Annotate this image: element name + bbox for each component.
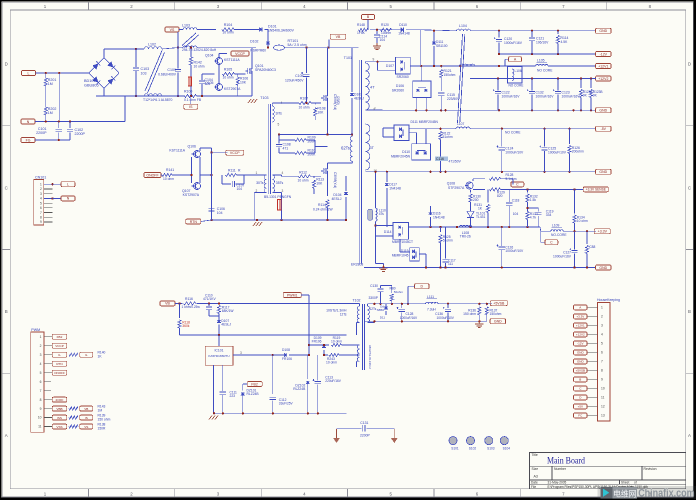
svg-text:1M: 1M — [48, 82, 53, 86]
wire — [327, 48, 329, 135]
ground — [209, 416, 218, 420]
port +3.3V SENSE — [583, 187, 608, 192]
junction — [376, 61, 378, 63]
resistor R110 — [295, 149, 316, 157]
rectifier D111 — [394, 120, 438, 141]
wire — [238, 48, 252, 96]
capacitor C132 — [527, 79, 554, 111]
svg-text:33uF/25V: 33uF/25V — [279, 402, 294, 406]
wire — [214, 355, 273, 413]
port 2OFF — [52, 397, 67, 402]
capacitor C121 — [529, 31, 549, 54]
winding T1 14*6.1 — [143, 94, 173, 102]
transistor Q104 — [205, 54, 240, 65]
svg-text:VSS: VSS — [56, 425, 62, 429]
resistor R114 — [313, 175, 333, 220]
label 10STs — [326, 309, 347, 317]
svg-text:1: 1 — [40, 335, 42, 339]
svg-text:GND: GND — [577, 360, 585, 364]
svg-text:9: 9 — [601, 378, 603, 382]
svg-text:VCCP: VCCP — [235, 52, 245, 56]
svg-text:3: 3 — [240, 351, 242, 355]
svg-text:+5VSB: +5VSB — [576, 369, 585, 373]
wire VB rail — [175, 302, 357, 304]
resistor R202 — [44, 107, 56, 115]
transformer T101 core — [344, 56, 364, 267]
inductor L104 — [457, 24, 471, 31]
capacitor C118 — [506, 189, 519, 227]
wire main HV bus — [285, 47, 359, 49]
capacitor C110 — [203, 294, 219, 317]
junction — [45, 120, 72, 122]
svg-text:L104: L104 — [459, 24, 467, 28]
svg-text:10K: 10K — [316, 182, 323, 186]
svg-text:1000uF/10V: 1000uF/10V — [548, 151, 567, 155]
svg-text:1000uF/16V: 1000uF/16V — [536, 95, 555, 99]
svg-text:294-T2-12024-820 8uH: 294-T2-12024-820 8uH — [182, 48, 217, 52]
port +5VSB pin 8 — [574, 368, 588, 373]
junction — [420, 65, 500, 67]
svg-text:35Ts: 35Ts — [276, 181, 284, 185]
IC IC101 — [205, 335, 242, 365]
svg-text:12: 12 — [601, 405, 605, 409]
port GND — [596, 169, 612, 174]
capacitor C128 — [397, 304, 418, 322]
mosfet Q101 — [246, 64, 276, 75]
svg-text:VS: VS — [84, 425, 88, 429]
port VSS — [52, 423, 106, 431]
svg-text:103: 103 — [141, 72, 147, 76]
svg-text:10 ohm: 10 ohm — [298, 179, 309, 183]
wire — [237, 174, 249, 176]
diode D104 — [332, 176, 348, 220]
svg-text:5: 5 — [40, 371, 42, 375]
svg-text:L102: L102 — [148, 43, 156, 47]
svg-text:S104: S104 — [503, 446, 511, 450]
transformer T103 core — [260, 96, 270, 194]
label HB-EPS — [368, 345, 372, 369]
svg-text:A3: A3 — [534, 474, 538, 478]
svg-text:R100: R100 — [184, 90, 192, 94]
svg-text:R141: R141 — [166, 168, 174, 172]
svg-text:-5V: -5V — [601, 127, 607, 131]
svg-text:IL: IL — [58, 353, 61, 357]
svg-text:D110: D110 — [402, 150, 410, 154]
svg-text:C88: C88 — [589, 245, 595, 249]
svg-text:R107: R107 — [300, 97, 308, 101]
svg-text:Q105: Q105 — [205, 81, 214, 85]
junction — [526, 207, 528, 209]
connector CN101 — [34, 175, 46, 225]
svg-text:S103: S103 — [487, 446, 495, 450]
svg-text:C118: C118 — [512, 199, 520, 203]
resistor R120 — [381, 23, 392, 35]
svg-text:Chinafix.com: Chinafix.com — [638, 487, 695, 499]
port +12V2 — [596, 76, 612, 81]
wire +5VSB rail — [374, 303, 492, 305]
svg-text:5: 5 — [40, 201, 42, 205]
svg-text:1M: 1M — [98, 408, 103, 412]
svg-text:4: 4 — [601, 333, 603, 337]
resistor R112 — [298, 170, 311, 182]
resistor R105 — [223, 68, 235, 80]
svg-text:3300P: 3300P — [368, 296, 378, 300]
wire — [161, 174, 192, 176]
svg-text:KA5H0165RTU: KA5H0165RTU — [208, 354, 229, 358]
wire FG — [35, 139, 70, 141]
port VCCP — [226, 150, 244, 155]
svg-text:223: 223 — [230, 394, 236, 398]
transformer core — [182, 33, 199, 48]
resistor R132 — [526, 189, 538, 208]
port C pin 10 — [574, 386, 588, 391]
resistor R121 — [440, 66, 456, 91]
svg-text:11: 11 — [38, 425, 42, 429]
junction — [45, 72, 61, 74]
svg-text:104: 104 — [237, 187, 243, 191]
svg-text:200ohm: 200ohm — [572, 150, 584, 154]
inductor L103 — [182, 23, 197, 29]
svg-text:C109: C109 — [167, 68, 176, 72]
wire — [192, 154, 212, 186]
capacitor C101 — [36, 122, 62, 141]
svg-text:9: 9 — [373, 58, 375, 62]
svg-text:Number: Number — [554, 467, 567, 471]
svg-text:1.5k: 1.5k — [530, 198, 537, 202]
svg-text:1000uF/10V: 1000uF/10V — [505, 151, 524, 155]
winding 35Ts — [272, 171, 283, 193]
svg-text:D102: D102 — [250, 40, 258, 44]
resistor R137 — [485, 304, 501, 322]
capacitor C109 — [158, 48, 181, 96]
svg-text:1000uF/10V: 1000uF/10V — [437, 316, 455, 320]
junction — [178, 302, 220, 304]
svg-text:10: 10 — [601, 387, 605, 391]
diode D110 — [370, 23, 414, 36]
svg-text:(20/D): (20/D) — [336, 96, 340, 105]
svg-text:VB: VB — [165, 302, 170, 306]
wire — [367, 304, 374, 323]
port +3.3V pin 2 — [574, 314, 588, 319]
svg-text:GND: GND — [599, 266, 607, 270]
wire L input — [36, 72, 90, 74]
wire — [381, 285, 392, 287]
wire fb rail — [180, 334, 347, 336]
svg-text:3: 3 — [601, 324, 603, 328]
svg-text:334: 334 — [546, 213, 552, 217]
svg-text:2: 2 — [601, 315, 603, 319]
svg-text:A: A — [5, 433, 8, 438]
port C — [541, 231, 558, 245]
port C — [511, 179, 524, 187]
svg-text:D: D — [5, 62, 8, 67]
svg-text:0.68U/400V: 0.68U/400V — [158, 73, 177, 77]
wire — [248, 175, 266, 220]
svg-text:R114: R114 — [318, 203, 326, 207]
svg-text:4: 4 — [40, 197, 42, 201]
ground — [333, 429, 340, 443]
wire — [328, 162, 353, 168]
svg-text:C116: C116 — [436, 157, 444, 161]
winding 3ITs — [272, 101, 282, 127]
wire — [375, 172, 383, 265]
resistor R104 — [197, 23, 234, 35]
port VS — [165, 27, 179, 32]
wire — [45, 73, 47, 122]
svg-text:2: 2 — [40, 187, 42, 191]
svg-text:VCCP: VCCP — [55, 344, 64, 348]
resistor R117 — [217, 303, 234, 318]
capacitor C103 — [133, 49, 149, 96]
svg-text:FB2: FB2 — [251, 382, 257, 386]
inductor L109 — [551, 223, 568, 237]
svg-text:-12V: -12V — [600, 52, 608, 56]
inductor core — [458, 34, 465, 123]
svg-text:PWM: PWM — [31, 328, 40, 332]
svg-text:10K: 10K — [317, 111, 324, 115]
svg-text:7: 7 — [40, 211, 42, 215]
svg-text:12Ts: 12Ts — [370, 307, 377, 311]
wire +12V2 rail — [470, 78, 596, 80]
wire sb gnd bus — [214, 412, 347, 414]
port GND pin 7 — [574, 359, 588, 364]
svg-text:L: L — [28, 71, 30, 75]
svg-text:D108: D108 — [282, 348, 290, 352]
svg-text:-12V: -12V — [577, 342, 583, 346]
svg-text:0.1 ohm FB: 0.1 ohm FB — [184, 98, 202, 102]
port VBB — [52, 405, 105, 413]
svg-text:L109: L109 — [552, 223, 560, 227]
svg-text:+12V1: +12V1 — [576, 324, 585, 328]
svg-text:150R: 150R — [98, 426, 107, 430]
svg-text:TL431: TL431 — [476, 215, 486, 219]
junction — [190, 46, 203, 97]
winding 8uH — [182, 46, 217, 52]
svg-text:S101: S101 — [451, 446, 459, 450]
svg-text:D119: D119 — [401, 249, 409, 253]
svg-text:111: 111 — [448, 262, 453, 266]
junction — [374, 171, 376, 227]
thermistor RT101 — [274, 39, 307, 50]
resistor R126 — [568, 129, 584, 172]
capacitor C113 — [313, 355, 342, 413]
resistor R113 — [312, 176, 324, 194]
svg-text:7.3uH: 7.3uH — [427, 307, 436, 311]
wire — [272, 175, 281, 220]
svg-text:10K: 10K — [240, 81, 247, 85]
junction — [373, 320, 480, 322]
svg-text:10 ohm: 10 ohm — [326, 360, 337, 364]
svg-text:4: 4 — [40, 362, 42, 366]
winding 4T — [365, 58, 376, 112]
port VCCP — [231, 51, 249, 56]
rectifier D119 — [392, 248, 419, 261]
resistor R118 — [178, 303, 190, 335]
svg-text:GND: GND — [599, 109, 607, 113]
svg-text:150 ohm: 150 ohm — [463, 312, 476, 316]
svg-text:6: 6 — [601, 351, 603, 355]
svg-text:+12V2: +12V2 — [576, 333, 585, 337]
port ONOFF — [144, 173, 161, 178]
wire -12V rail — [499, 53, 596, 55]
svg-text:1N4148: 1N4148 — [389, 187, 401, 191]
svg-text:10 ohm: 10 ohm — [163, 177, 174, 181]
wire — [272, 103, 299, 106]
diode D102 — [250, 40, 270, 53]
port FG — [21, 138, 35, 143]
winding L104b — [459, 64, 475, 66]
svg-text:+3.3V SENSE: +3.3V SENSE — [586, 188, 606, 192]
svg-text:R148: R148 — [357, 23, 365, 27]
svg-text:KST1111A: KST1111A — [224, 58, 240, 62]
junction — [213, 412, 319, 414]
svg-text:8: 8 — [40, 215, 42, 219]
svg-text:L103: L103 — [182, 23, 190, 27]
port +12V1 pin 3 — [574, 323, 588, 328]
winding 3T — [365, 108, 377, 174]
diode D117 — [385, 172, 401, 227]
wire pin 9 — [365, 62, 395, 71]
resistor R134 — [573, 189, 588, 231]
wire — [416, 66, 426, 110]
junction — [429, 226, 528, 228]
svg-text:RTN: RTN — [190, 220, 198, 224]
inductor L108 — [459, 225, 472, 238]
svg-text:+5VSB: +5VSB — [493, 301, 505, 305]
svg-text:ISS: ISS — [57, 416, 62, 420]
port +12V1 — [596, 64, 612, 69]
svg-text:1F5K: 1F5K — [357, 31, 366, 35]
port B — [362, 14, 375, 29]
junction — [573, 230, 588, 232]
svg-text:T102: T102 — [353, 299, 361, 303]
fuse F102 — [277, 200, 281, 211]
svg-text:Q106: Q106 — [187, 145, 196, 149]
svg-text:1000uF/16V: 1000uF/16V — [562, 95, 581, 99]
port A pin 1 — [574, 305, 588, 310]
svg-text:2: 2 — [40, 344, 42, 348]
junction — [135, 46, 179, 97]
inductor L106 — [508, 67, 524, 88]
wire gnd rail3 — [364, 267, 596, 269]
svg-text:62Ts: 62Ts — [341, 146, 350, 151]
junction — [308, 344, 310, 356]
wire — [375, 225, 393, 236]
svg-text:RLZ24B: RLZ24B — [247, 392, 260, 396]
svg-text:1000uF/16V: 1000uF/16V — [400, 316, 418, 320]
wire top output rail — [414, 30, 596, 66]
wire — [190, 86, 192, 96]
svg-text:4T: 4T — [370, 85, 375, 90]
connector CN101 pins — [40, 182, 52, 224]
svg-text:3T: 3T — [370, 146, 375, 150]
svg-text:A: A — [579, 306, 581, 310]
resistor R107 — [299, 97, 312, 110]
svg-text:13: 13 — [601, 414, 605, 418]
port +3.3V — [594, 229, 610, 234]
svg-text:1N5406,3A/600V: 1N5406,3A/600V — [268, 29, 295, 33]
svg-text:1000uF/16V: 1000uF/16V — [504, 41, 523, 45]
svg-text:11: 11 — [601, 396, 605, 400]
svg-text:STF2907A: STF2907A — [448, 186, 465, 190]
svg-text:6: 6 — [40, 380, 42, 384]
svg-text:VCCP: VCCP — [230, 151, 240, 155]
wire — [136, 48, 178, 49]
svg-text:9: 9 — [40, 220, 42, 224]
svg-text:RLZ24B: RLZ24B — [293, 387, 306, 391]
svg-text:820: 820 — [497, 194, 503, 198]
junction — [305, 46, 329, 48]
svg-text:IL: IL — [85, 353, 88, 357]
ground — [373, 43, 381, 50]
resistor R131 — [474, 189, 489, 227]
junction — [497, 77, 592, 79]
svg-text:220uF/16V: 220uF/16V — [325, 379, 341, 383]
capacitor C126 — [497, 227, 524, 268]
svg-text:C103: C103 — [141, 67, 150, 71]
junction — [433, 30, 559, 68]
svg-text:HB-EPS1-03-1403-2: HB-EPS1-03-1403-2 — [368, 345, 372, 369]
capacitor C125 — [539, 129, 566, 172]
resistor R108 — [314, 103, 326, 120]
svg-text:10: 10 — [38, 416, 42, 420]
capacitor C127 — [553, 231, 578, 267]
svg-text:104: 104 — [513, 212, 519, 216]
shunt ref TL101 — [467, 209, 486, 227]
svg-text:4: 4 — [282, 171, 284, 175]
svg-text:30Ts: 30Ts — [256, 181, 264, 185]
wire +3.3V pre rail — [409, 226, 541, 228]
rectifier D114 — [384, 223, 413, 244]
capacitor C136 — [435, 304, 455, 322]
resistor R243 — [326, 353, 357, 364]
svg-text:10 ohm: 10 ohm — [299, 106, 310, 110]
svg-text:FR106: FR106 — [312, 340, 322, 344]
resistor R130 — [469, 190, 481, 209]
svg-text:150 ohm: 150 ohm — [98, 417, 111, 421]
svg-text:1: 1 — [601, 306, 603, 310]
wire — [357, 345, 360, 367]
resistor R141 — [162, 168, 174, 181]
wire — [267, 30, 269, 48]
label B5-1301 — [264, 195, 292, 199]
junction — [58, 139, 60, 141]
ground — [391, 429, 398, 443]
port A — [505, 57, 522, 66]
resistor R135 — [390, 286, 404, 304]
junction — [373, 303, 488, 305]
svg-text:of: of — [634, 481, 637, 485]
port L — [22, 71, 36, 76]
svg-text:L105: L105 — [537, 59, 545, 63]
wire sb gnd rail — [364, 320, 487, 322]
resistor R148 — [357, 23, 369, 35]
port ONOFF — [52, 370, 67, 375]
junction — [267, 46, 269, 48]
svg-text:223/50V: 223/50V — [447, 97, 460, 101]
connector HouseKeeping pin stubs — [587, 306, 605, 418]
svg-text:7: 7 — [40, 389, 42, 393]
svg-text:D11: D11 — [380, 315, 386, 319]
svg-text:电维网: 电维网 — [613, 488, 637, 498]
svg-text:471: 471 — [283, 147, 289, 151]
resistor R128 — [473, 173, 517, 181]
wire — [58, 73, 60, 122]
diode D108 — [273, 348, 309, 361]
inductor L110 — [368, 208, 386, 221]
svg-text:L: L — [67, 183, 69, 187]
wire — [357, 303, 360, 335]
